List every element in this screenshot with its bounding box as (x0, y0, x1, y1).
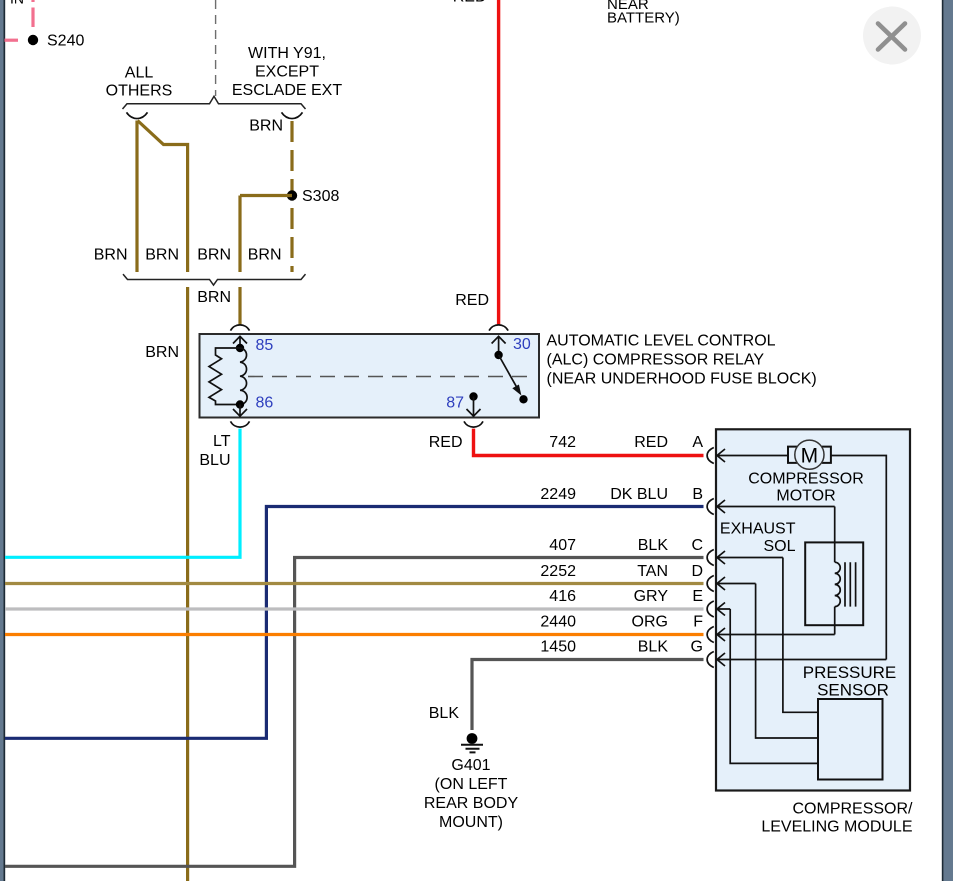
svg-text:WITH Y91,: WITH Y91, (248, 45, 326, 62)
wire TAN (5, 582, 704, 585)
module pin E arrow (717, 603, 730, 616)
wire pin D to sensor (756, 584, 818, 739)
ground G401 (461, 733, 483, 752)
relay switch arm (499, 355, 528, 403)
svg-text:COMPRESSOR: COMPRESSOR (748, 471, 864, 488)
svg-text:(ALC) COMPRESSOR RELAY: (ALC) COMPRESSOR RELAY (547, 352, 765, 369)
relay pin 87 arrow (467, 397, 481, 417)
svg-text:D: D (691, 563, 703, 580)
svg-text:86: 86 (256, 395, 274, 412)
svg-text:C: C (691, 537, 703, 554)
viewer left border bar (0, 0, 5, 881)
svg-text:SENSOR: SENSOR (817, 681, 889, 700)
svg-text:(ON LEFT: (ON LEFT (435, 776, 508, 793)
svg-text:EXCEPT: EXCEPT (255, 64, 319, 81)
svg-text:COMPRESSOR/: COMPRESSOR/ (792, 801, 913, 818)
svg-text:SOL: SOL (763, 538, 795, 555)
connector module pin C (707, 550, 714, 566)
relay pin 30 arrow (492, 336, 506, 355)
wire BLK 407 (5, 558, 704, 867)
module pin D arrow (717, 577, 756, 590)
connector module pin G (707, 652, 714, 668)
svg-text:BRN: BRN (248, 247, 282, 264)
svg-text:B: B (692, 486, 703, 503)
relay caption (547, 333, 817, 388)
wire pink dashed vertical (31, 0, 34, 27)
wire LT BLU cyan (5, 429, 240, 558)
svg-text:BLK: BLK (429, 705, 460, 722)
wire BRN to relay (238, 287, 241, 325)
svg-text:ALL: ALL (125, 65, 154, 82)
relay pin 86 arrow (233, 405, 247, 417)
option split brace top (123, 96, 306, 109)
svg-text:RED: RED (634, 434, 668, 451)
svg-text:LT: LT (213, 433, 231, 450)
svg-text:BRN: BRN (145, 344, 179, 361)
svg-text:87: 87 (446, 395, 464, 412)
wire pin B to solenoid (834, 507, 836, 563)
relay internal dashed line (248, 376, 536, 378)
module pin B arrow (717, 500, 835, 513)
svg-text:BLU: BLU (199, 452, 230, 469)
connector below relay pin 87 (464, 421, 483, 427)
connector module pin D (707, 576, 714, 592)
svg-text:OTHERS: OTHERS (106, 83, 173, 100)
svg-text:RED: RED (453, 0, 487, 6)
wire pin C to sensor (783, 558, 818, 713)
svg-text:(NEAR UNDERHOOD FUSE BLOCK): (NEAR UNDERHOOD FUSE BLOCK) (547, 371, 817, 388)
module pin G arrow (717, 653, 886, 666)
wire BRN 3 (240, 196, 292, 273)
dashed option stub line (215, 0, 217, 96)
svg-text:2252: 2252 (540, 563, 576, 580)
viewer right border bar (942, 0, 953, 881)
svg-text:BRN: BRN (94, 247, 128, 264)
relay U1 box (200, 334, 540, 418)
svg-text:RED: RED (455, 292, 489, 309)
wire DK BLU (5, 507, 704, 739)
svg-text:S240: S240 (47, 33, 84, 50)
svg-text:MOUNT): MOUNT) (439, 814, 503, 831)
svg-text:1450: 1450 (540, 639, 576, 656)
svg-text:407: 407 (549, 537, 576, 554)
svg-text:AUTOMATIC LEVEL CONTROL: AUTOMATIC LEVEL CONTROL (547, 333, 776, 350)
connector below relay pin 86 (231, 421, 250, 427)
svg-text:742: 742 (549, 434, 576, 451)
svg-text:30: 30 (513, 336, 531, 353)
svg-text:REAR BODY: REAR BODY (424, 795, 519, 812)
merge brace bottom (123, 274, 306, 285)
svg-text:PRESSURE: PRESSURE (803, 663, 897, 682)
svg-text:G401: G401 (451, 757, 490, 774)
relay pin 85 arrow (233, 336, 247, 348)
connector under brace left (127, 112, 148, 118)
svg-text:RED: RED (429, 434, 463, 451)
exhaust solenoid L1 (805, 542, 863, 625)
svg-text:TAN: TAN (637, 563, 668, 580)
svg-text:BLK: BLK (638, 639, 669, 656)
compressor motor M1 (788, 440, 831, 469)
svg-text:M: M (801, 444, 819, 467)
wire BRN 1 (135, 121, 138, 273)
svg-text:GRY: GRY (634, 588, 669, 605)
connector module pin B (707, 499, 714, 515)
svg-text:BRN: BRN (197, 247, 231, 264)
relay resistor (209, 348, 240, 405)
module pin A arrow (717, 449, 788, 462)
wire ORG (5, 633, 704, 636)
relay pin 87 node (469, 392, 477, 400)
connector above relay pin 85 (231, 325, 250, 331)
compressor leveling module box (716, 429, 910, 790)
node S308 (287, 190, 297, 200)
svg-text:E: E (692, 588, 703, 605)
svg-text:G: G (691, 639, 703, 656)
svg-text:2249: 2249 (540, 486, 576, 503)
close button (863, 7, 921, 65)
module pin C arrow (717, 551, 783, 564)
wire RED relay to pin A (474, 429, 704, 456)
svg-text:A: A (692, 434, 703, 451)
svg-text:BRN: BRN (197, 289, 231, 306)
connector module pin F (707, 627, 714, 643)
svg-text:BATTERY): BATTERY) (607, 10, 680, 27)
svg-text:F: F (693, 614, 703, 631)
svg-text:BRN: BRN (249, 118, 283, 135)
svg-text:ORG: ORG (632, 614, 668, 631)
svg-text:EXHAUST: EXHAUST (720, 521, 796, 538)
svg-text:2440: 2440 (540, 614, 576, 631)
wire BLK 1450 (472, 660, 704, 731)
svg-text:LEVELING MODULE: LEVELING MODULE (761, 819, 912, 836)
wire pin E to sensor (730, 609, 818, 763)
relay pin 30 node (494, 351, 502, 359)
svg-text:S308: S308 (302, 188, 339, 205)
node S240 (28, 35, 38, 45)
svg-text:BLK: BLK (638, 537, 669, 554)
wire RED from top (497, 0, 500, 325)
wire BRN 4 dashed (290, 121, 293, 272)
relay pin 86 node (236, 400, 244, 408)
connector module pin A (707, 448, 714, 464)
svg-text:ESCLADE EXT: ESCLADE EXT (232, 82, 342, 99)
connector above relay pin 30 (489, 325, 508, 331)
svg-text:416: 416 (549, 588, 576, 605)
wire solenoid to pin F (834, 607, 836, 635)
wire pink dashed horizontal (5, 39, 19, 42)
relay coil (240, 348, 247, 405)
svg-text:DK BLU: DK BLU (610, 486, 668, 503)
svg-text:85: 85 (256, 337, 274, 354)
svg-text:IN: IN (10, 0, 24, 7)
wire GRY (5, 607, 704, 610)
wire BRN long vertical (186, 287, 189, 881)
svg-text:MOTOR: MOTOR (776, 488, 835, 505)
wire motor to pin G inside module (831, 456, 886, 660)
pressure sensor B1 box (818, 699, 883, 780)
svg-text:BRN: BRN (145, 247, 179, 264)
relay pin 85 node (236, 344, 244, 352)
connector module pin E (707, 601, 714, 617)
connector under brace right (282, 112, 303, 118)
wire BRN 2 with jog (138, 121, 188, 273)
module pin F arrow (717, 628, 835, 641)
